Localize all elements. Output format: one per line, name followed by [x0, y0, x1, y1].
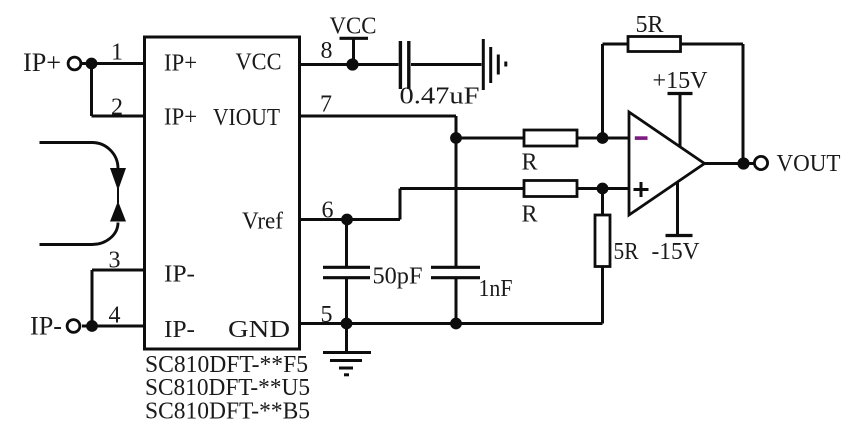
terminal VOUT circle: [754, 156, 767, 169]
svg-text:SC810DFT-**F5: SC810DFT-**F5: [145, 352, 308, 378]
svg-text:3: 3: [109, 248, 121, 274]
current arrow bottom triangle: [110, 201, 126, 222]
VCC power bar: [340, 37, 369, 40]
capacitor C1 0.47uF plates: [400, 41, 408, 89]
wire pin5 GND rail: [300, 322, 603, 325]
svg-text:IP-: IP-: [164, 262, 195, 288]
svg-text:4: 4: [109, 303, 121, 329]
wire R1 to inverting input: [577, 137, 629, 140]
wire pin7 VIOUT: [300, 115, 457, 118]
current arrow top triangle: [110, 168, 126, 191]
wire pin8 VCC: [300, 63, 399, 66]
wire feedback left vertical: [601, 44, 604, 138]
svg-text:IP-: IP-: [30, 312, 62, 341]
svg-text:1: 1: [111, 40, 123, 66]
wire C1 to ground: [411, 63, 482, 66]
capacitor C3 1nF plates: [431, 267, 480, 277]
wire plus node to R4 top: [601, 189, 604, 216]
op-amp U2 triangle: [629, 112, 705, 215]
svg-text:IP-: IP-: [164, 317, 195, 343]
svg-text:2: 2: [111, 95, 123, 121]
wire R4 bottom to gnd line: [601, 267, 604, 324]
wire pin4 IP-: [82, 325, 144, 328]
current path loop symbol: [40, 143, 119, 245]
svg-text:VIOUT: VIOUT: [213, 105, 280, 131]
wire C3 bottom: [455, 279, 458, 324]
op-amp inverting minus mark: [635, 136, 648, 140]
wire C2 bottom: [345, 279, 348, 324]
svg-text:+15V: +15V: [653, 68, 709, 94]
wire +15V stem: [679, 95, 682, 147]
svg-text:R: R: [522, 150, 538, 176]
resistor R3 5R feedback: [628, 37, 681, 52]
wire pin2 IP+: [92, 115, 145, 118]
svg-text:6: 6: [322, 198, 334, 224]
op-amp non-inverting plus mark: [634, 182, 649, 197]
svg-text:VCC: VCC: [330, 14, 377, 40]
wire VIOUT vertical to C3: [455, 116, 458, 266]
resistor R1: [524, 130, 577, 146]
wire pin1 IP+: [82, 62, 144, 65]
svg-text:GND: GND: [228, 317, 290, 343]
svg-text:IP+: IP+: [164, 51, 197, 77]
capacitor C2 50pF plates: [323, 267, 370, 277]
wire Vref to R2: [400, 187, 524, 190]
svg-text:R: R: [522, 202, 538, 228]
svg-text:5R: 5R: [614, 239, 639, 265]
wire R2 to non-inverting input: [577, 187, 629, 190]
wire ground stem: [345, 324, 348, 352]
svg-text:VOUT: VOUT: [777, 151, 841, 177]
wire C2 top: [345, 220, 348, 267]
svg-text:VCC: VCC: [236, 50, 282, 76]
resistor R4 5R to ground: [595, 215, 610, 267]
svg-text:7: 7: [320, 92, 332, 118]
svg-text:8: 8: [321, 38, 333, 64]
wire Vref step vertical: [399, 189, 402, 220]
svg-text:5R: 5R: [636, 12, 664, 38]
ground symbol below pin5: [323, 353, 371, 375]
wire -15V stem: [676, 182, 679, 235]
wire feedback top left: [603, 43, 629, 46]
svg-text:-15V: -15V: [652, 239, 701, 265]
ground symbol sideways near C1: [483, 39, 506, 90]
svg-text:IP+: IP+: [164, 105, 197, 131]
svg-text:50pF: 50pF: [373, 264, 423, 290]
wire VIOUT node to R1: [456, 137, 524, 140]
wire pin3 IP-: [92, 269, 144, 272]
wire feedback top right: [681, 43, 744, 46]
wire pin3-pin4 vertical: [91, 270, 94, 326]
-15V power bar: [666, 234, 693, 237]
terminal IP- circle: [67, 320, 80, 333]
wire feedback right vertical: [742, 44, 745, 164]
wire pin6 Vref: [300, 218, 401, 221]
resistor R2: [524, 181, 577, 197]
svg-text:IP+: IP+: [23, 48, 61, 77]
terminal IP+ circle: [68, 57, 81, 70]
svg-text:1nF: 1nF: [479, 276, 513, 302]
IC U1 body SC810DFT: [145, 37, 300, 349]
wire pin1-pin2 vertical: [90, 64, 93, 117]
+15V power bar: [668, 92, 693, 95]
wire VCC stem: [352, 38, 355, 65]
wire opamp output: [705, 162, 754, 165]
svg-text:0.47uF: 0.47uF: [400, 84, 480, 110]
svg-text:SC810DFT-**U5: SC810DFT-**U5: [145, 375, 310, 401]
svg-text:5: 5: [321, 302, 333, 328]
svg-text:Vref: Vref: [242, 209, 283, 235]
svg-text:SC810DFT-**B5: SC810DFT-**B5: [145, 398, 310, 424]
